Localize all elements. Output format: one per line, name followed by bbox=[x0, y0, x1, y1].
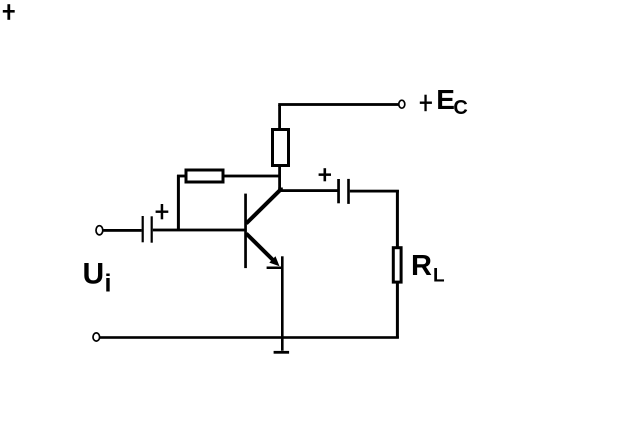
svg-text:i: i bbox=[105, 269, 112, 297]
wire: vertical from Rf left down to base wire bbox=[177, 175, 180, 231]
wire: R1 bottom to collector node bbox=[278, 165, 281, 190]
wire: RL bottom down to bottom rail bbox=[396, 282, 399, 338]
transistor Q1 collector stroke bbox=[246, 189, 281, 224]
wire: top rail from collector resistor to +Ec terminal bbox=[278, 103, 398, 106]
svg-text:E: E bbox=[436, 84, 455, 115]
resistor RL (vertical box) bbox=[393, 248, 401, 282]
wire: +Ec terminal down to collector resistor R1 bbox=[278, 105, 281, 130]
wire: collector node to output capacitor C2 bbox=[280, 189, 338, 192]
resistor Rf (feedback resistor, horizontal box) bbox=[186, 170, 223, 182]
capacitor C2 left plate bbox=[337, 179, 340, 203]
wire: Rf left side horizontal bbox=[177, 175, 187, 178]
node: collector junction bbox=[278, 188, 283, 192]
svg-text:U: U bbox=[83, 257, 105, 290]
terminal +Ec (circle) bbox=[399, 100, 405, 108]
capacitor C2 right plate bbox=[347, 179, 350, 204]
svg-text:L: L bbox=[433, 266, 445, 287]
plus mark top-left bbox=[3, 4, 15, 20]
label plus of capacitor C2 bbox=[319, 168, 331, 181]
wire: emitter down through rail to ground bbox=[281, 256, 284, 350]
resistor R1 (collector resistor, vertical box) bbox=[273, 130, 289, 166]
capacitor C1 left plate bbox=[142, 216, 144, 242]
wire: C2 right plate to RL corner bbox=[350, 190, 399, 193]
svg-text:R: R bbox=[411, 250, 432, 282]
wire: emitter tick bbox=[267, 267, 283, 270]
terminal input top (circle) bbox=[96, 226, 103, 235]
wire: C1 right plate to transistor base bbox=[153, 229, 245, 232]
ground bar bbox=[274, 351, 290, 354]
transistor Q1 base bar bbox=[244, 194, 247, 269]
capacitor C1 right plate bbox=[151, 216, 153, 242]
wire: input terminal to capacitor C1 bbox=[104, 229, 142, 232]
wire: bottom rail bbox=[100, 336, 399, 339]
label +Ec : plus sign bbox=[420, 95, 432, 112]
wire: Rf right side to collector wire bbox=[223, 175, 280, 178]
svg-text:C: C bbox=[453, 97, 467, 119]
label plus of capacitor C1 bbox=[156, 204, 169, 219]
transistor Q1 emitter stroke bbox=[246, 234, 273, 261]
terminal input bottom (circle) bbox=[93, 333, 100, 341]
transistor Q1 emitter arrowhead bbox=[269, 256, 279, 266]
wire: vertical down to RL bbox=[396, 190, 399, 248]
